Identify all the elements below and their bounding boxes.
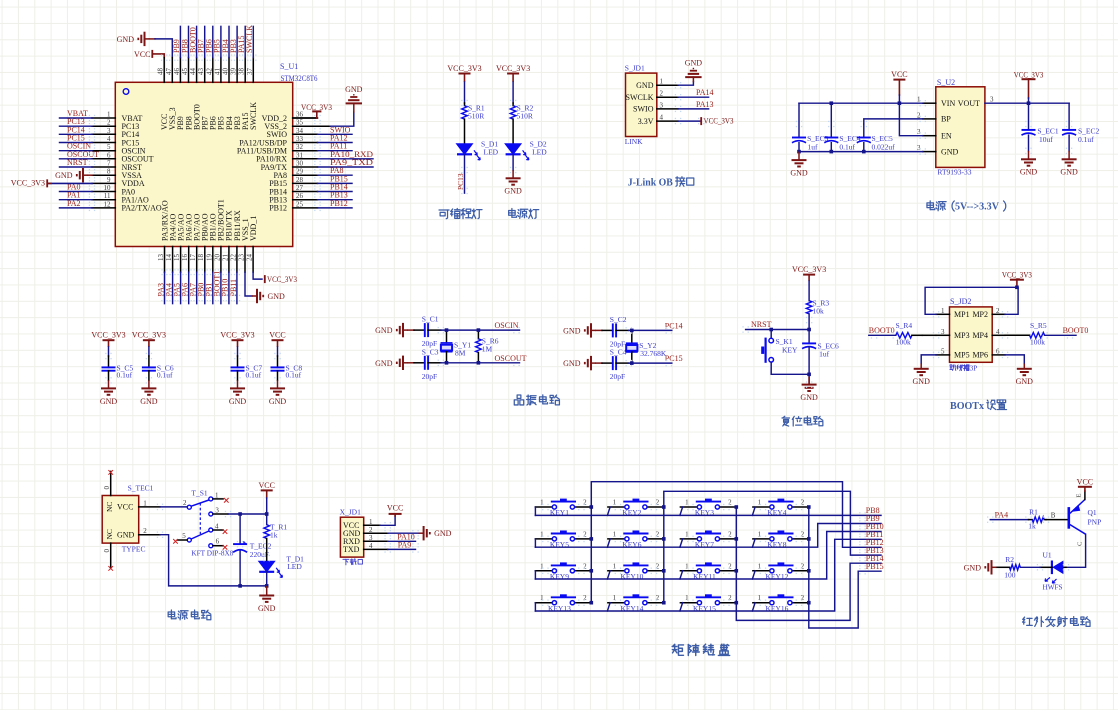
wire pin 23 bottom bbox=[244, 247, 246, 273]
power VCC at Q1 bbox=[1084, 491, 1086, 500]
wire switch pin1 nc bbox=[213, 498, 223, 500]
svg-text:47: 47 bbox=[165, 68, 173, 76]
svg-text:GND: GND bbox=[375, 359, 393, 368]
resistor S_R5 100k bbox=[992, 334, 1005, 336]
svg-text:GND: GND bbox=[1060, 168, 1078, 177]
pushbutton KEY16 bbox=[753, 602, 770, 604]
svg-text:20: 20 bbox=[213, 254, 221, 262]
svg-text:1: 1 bbox=[613, 530, 617, 538]
svg-text:GND: GND bbox=[1020, 168, 1038, 177]
svg-text:1: 1 bbox=[613, 499, 617, 507]
svg-text:27: 27 bbox=[296, 184, 304, 192]
svg-text:VCC: VCC bbox=[117, 503, 133, 512]
svg-text:39: 39 bbox=[230, 68, 238, 76]
svg-text:GND: GND bbox=[563, 326, 581, 335]
svg-text:MP5: MP5 bbox=[954, 351, 970, 360]
wire column 3 to PB14 bbox=[736, 507, 881, 620]
wire pin 24 bottom bbox=[252, 247, 254, 273]
svg-text:14: 14 bbox=[165, 254, 173, 262]
svg-text:MP1: MP1 bbox=[954, 310, 970, 319]
svg-text:18: 18 bbox=[197, 254, 205, 262]
svg-text:SWCLK: SWCLK bbox=[626, 93, 654, 102]
svg-text:4: 4 bbox=[215, 522, 219, 530]
svg-text:PB15: PB15 bbox=[866, 562, 884, 571]
wire JD1 pin4 VCC_3V3 bbox=[657, 120, 678, 122]
svg-text:PA4: PA4 bbox=[995, 510, 1009, 519]
svg-text:PC14: PC14 bbox=[665, 321, 683, 330]
svg-text:BOOT0: BOOT0 bbox=[1063, 326, 1089, 335]
svg-text:T_S1: T_S1 bbox=[191, 489, 208, 498]
power VCC_3V3 pin 24 bbox=[253, 272, 262, 279]
svg-text:100k: 100k bbox=[1030, 338, 1045, 347]
svg-text:26: 26 bbox=[296, 192, 304, 200]
connector X_JD1 body bbox=[340, 517, 363, 557]
caption power LED bbox=[509, 209, 517, 218]
wire JD1 pin2 PA14 bbox=[657, 96, 678, 98]
svg-text:GND: GND bbox=[1016, 377, 1034, 386]
wire pin 36 right bbox=[293, 117, 318, 119]
svg-text:0: 0 bbox=[103, 486, 111, 490]
svg-text:2: 2 bbox=[728, 562, 732, 570]
svg-text:S_C1: S_C1 bbox=[422, 315, 439, 324]
svg-text:U1: U1 bbox=[1043, 550, 1052, 559]
svg-text:2: 2 bbox=[656, 530, 660, 538]
resistor S_R3 10k bbox=[806, 301, 812, 314]
pushbutton KEY3 bbox=[680, 506, 697, 508]
svg-text:1: 1 bbox=[685, 594, 689, 602]
svg-text:0.1uf: 0.1uf bbox=[286, 371, 302, 380]
svg-text:VCC_3V3: VCC_3V3 bbox=[220, 331, 254, 340]
svg-text:2: 2 bbox=[656, 594, 660, 602]
wire row bus 2 bbox=[535, 524, 881, 548]
wire key hook bbox=[607, 571, 610, 579]
svg-text:GND: GND bbox=[229, 397, 247, 406]
resistor R2 100 bbox=[1040, 566, 1052, 568]
svg-text:6: 6 bbox=[216, 538, 220, 546]
power VCC_3V3 pin 9 VDDA bbox=[48, 182, 92, 184]
svg-text:32: 32 bbox=[296, 143, 304, 151]
svg-text:4: 4 bbox=[107, 135, 111, 143]
wire VIN rail bbox=[799, 102, 923, 104]
svg-text:VIN: VIN bbox=[941, 99, 955, 108]
svg-text:J-Link OB: J-Link OB bbox=[628, 176, 674, 188]
svg-text:LED: LED bbox=[287, 562, 302, 571]
caption power circuit bbox=[168, 610, 176, 619]
wire column 2 to PB13 bbox=[664, 491, 881, 602]
wire switch pin4 nc bbox=[213, 529, 223, 531]
svg-text:1: 1 bbox=[613, 562, 617, 570]
pushbutton KEY10 bbox=[608, 570, 625, 572]
svg-text:2: 2 bbox=[656, 499, 660, 507]
pushbutton KEY12 bbox=[753, 570, 770, 572]
svg-text:BP: BP bbox=[941, 115, 951, 124]
power VCC_3V3 at S_R3 bbox=[803, 275, 815, 282]
capacitor S_C1 20pF bbox=[408, 329, 414, 331]
wire pin 34 right bbox=[293, 133, 318, 135]
capacitor S_EC4 0.1uf bbox=[830, 103, 832, 137]
svg-text:S_R5: S_R5 bbox=[1030, 321, 1047, 330]
caption programmable LED bbox=[439, 210, 449, 219]
wire pin 38 top bbox=[244, 58, 246, 83]
pushbutton KEY9 bbox=[535, 570, 552, 572]
caption jumper 3P bbox=[950, 365, 956, 371]
wire pin 48 top bbox=[163, 58, 165, 83]
svg-text:34: 34 bbox=[296, 127, 304, 135]
wire pin 44 top bbox=[196, 58, 198, 83]
wire key hook bbox=[607, 603, 610, 611]
svg-text:S_JD1: S_JD1 bbox=[625, 63, 645, 72]
svg-text:17: 17 bbox=[189, 254, 197, 262]
resistor S_R2 510R bbox=[512, 103, 514, 106]
wire pin 30 right bbox=[293, 166, 318, 168]
wire pin 45 top bbox=[188, 58, 190, 83]
svg-text:1: 1 bbox=[540, 499, 544, 507]
wire pin 29 right bbox=[293, 174, 318, 176]
svg-text:10: 10 bbox=[104, 184, 112, 192]
power VCC_3V3 at S_C5 bbox=[103, 340, 115, 347]
wire XJD1 pin2 to GND bbox=[364, 532, 388, 534]
svg-text:28: 28 bbox=[296, 176, 304, 184]
wire PC15 bbox=[616, 362, 629, 364]
svg-text:PC15: PC15 bbox=[665, 354, 683, 363]
power VCC_3V3 at S_C7 bbox=[232, 340, 244, 347]
svg-text:Q1: Q1 bbox=[1088, 508, 1097, 517]
svg-text:24: 24 bbox=[246, 254, 254, 262]
wire pin 43 top bbox=[204, 58, 206, 83]
svg-text:VCC_3V3: VCC_3V3 bbox=[1014, 71, 1044, 80]
svg-text:R2: R2 bbox=[1005, 555, 1014, 564]
svg-text:GND: GND bbox=[55, 171, 73, 180]
svg-text:GND: GND bbox=[913, 377, 931, 386]
svg-text:VOUT: VOUT bbox=[958, 99, 980, 108]
caption matrix keyboard bbox=[672, 644, 683, 655]
ground at S_C3 bbox=[397, 356, 408, 370]
wire pin 9 left bbox=[92, 182, 115, 184]
wire row feed bbox=[534, 603, 536, 611]
svg-text:1M: 1M bbox=[482, 345, 493, 354]
svg-text:2: 2 bbox=[107, 119, 111, 127]
wire pin 21 bottom bbox=[228, 247, 230, 273]
ground at S_C2 bbox=[585, 323, 596, 337]
ground IR bbox=[997, 566, 1010, 568]
power VCC_3V3 pin 36 bbox=[293, 117, 317, 119]
wire key hook bbox=[680, 571, 683, 579]
svg-text:GND: GND bbox=[563, 359, 581, 368]
wire pin 13 bottom bbox=[164, 247, 166, 273]
wire VOUT to VCC_3V3 bbox=[985, 102, 1069, 104]
svg-text:GND: GND bbox=[941, 147, 959, 156]
wire pin 20 bottom bbox=[220, 247, 222, 273]
ground power circuit bbox=[259, 586, 274, 602]
svg-text:PNP: PNP bbox=[1088, 518, 1102, 527]
svg-text:C: C bbox=[1077, 542, 1084, 546]
svg-text:KFT DIP-8X8: KFT DIP-8X8 bbox=[191, 549, 233, 558]
wire XJD1 pin3 PA10 bbox=[364, 540, 388, 542]
wire JD2 pin6 to GND bbox=[992, 354, 1005, 356]
svg-text:0.1uf: 0.1uf bbox=[1078, 135, 1094, 144]
svg-text:15: 15 bbox=[173, 254, 181, 262]
wire EN to VIN rail bbox=[899, 103, 922, 136]
IC U1 STM32C8T6 body bbox=[115, 82, 292, 246]
capacitor S_EC2 0.1uf bbox=[1068, 103, 1070, 130]
svg-text:OSCOUT: OSCOUT bbox=[495, 354, 527, 363]
wire key hook bbox=[607, 539, 610, 547]
ground at S_C4 bbox=[585, 356, 596, 370]
wire BOOT0 left bbox=[869, 334, 896, 336]
ground at EC1 bbox=[1021, 151, 1036, 166]
svg-text:1: 1 bbox=[540, 562, 544, 570]
svg-text:GND: GND bbox=[345, 85, 363, 94]
capacitor S_EC5 0.022uf bbox=[863, 124, 865, 138]
wire row feed bbox=[534, 507, 536, 515]
svg-text:SWIO: SWIO bbox=[633, 105, 654, 114]
svg-text:1: 1 bbox=[685, 530, 689, 538]
svg-text:PB11: PB11 bbox=[229, 279, 238, 297]
wire pin 14 bottom bbox=[172, 247, 174, 273]
svg-text:3: 3 bbox=[107, 127, 111, 135]
transistor Q1 PNP bbox=[1068, 507, 1071, 529]
power VCC_3V3 for S_R2 bbox=[507, 74, 519, 83]
svg-text:5: 5 bbox=[182, 532, 186, 540]
svg-text:VCC: VCC bbox=[269, 331, 285, 340]
svg-text:VCC_3V3: VCC_3V3 bbox=[704, 117, 734, 126]
wire row bus 4 bbox=[535, 539, 881, 611]
wire OSCIN bbox=[428, 329, 441, 331]
svg-text:13: 13 bbox=[157, 254, 165, 262]
no-connect pin 0 top bbox=[110, 471, 112, 495]
wire JD2 pin5 to GND bbox=[936, 354, 950, 356]
LED T_D1 bbox=[259, 561, 275, 572]
svg-text:PA13: PA13 bbox=[696, 100, 714, 109]
wire BOOT0 right bbox=[1045, 334, 1076, 336]
svg-text:2: 2 bbox=[728, 499, 732, 507]
svg-text:PB12: PB12 bbox=[330, 199, 348, 208]
power VCC at T_R1 bbox=[261, 489, 273, 491]
svg-text:32.768K: 32.768K bbox=[640, 349, 667, 358]
wire key hook bbox=[680, 603, 683, 611]
svg-text:NC: NC bbox=[105, 502, 114, 512]
wire pin 32 right bbox=[293, 150, 318, 152]
wire pin 5 left bbox=[92, 150, 115, 152]
svg-text:0.1uf: 0.1uf bbox=[117, 371, 133, 380]
wire pin 26 right bbox=[293, 199, 318, 201]
pushbutton KEY2 bbox=[608, 506, 625, 508]
svg-text:31: 31 bbox=[296, 151, 304, 159]
svg-text:1: 1 bbox=[758, 562, 762, 570]
svg-text:LED: LED bbox=[484, 148, 499, 157]
svg-text:OSCIN: OSCIN bbox=[495, 321, 519, 330]
svg-text:TXD: TXD bbox=[343, 545, 360, 554]
power GND pin 47 VSS_3 bbox=[138, 32, 149, 46]
svg-text:S_R4: S_R4 bbox=[896, 321, 913, 330]
capacitor S_EC3 1uf bbox=[798, 103, 800, 137]
resistor T_R1 1k bbox=[264, 525, 270, 539]
svg-text:MP4: MP4 bbox=[972, 331, 988, 340]
wire column 1 to PB12 bbox=[591, 482, 881, 603]
pushbutton KEY13 bbox=[535, 602, 552, 604]
wire key hook bbox=[752, 507, 755, 515]
wire pin 33 right bbox=[293, 142, 318, 144]
svg-text:BOOTx: BOOTx bbox=[950, 400, 984, 412]
caption IR transmit circuit bbox=[1023, 617, 1033, 625]
svg-text:38: 38 bbox=[238, 68, 246, 76]
svg-text:1uf: 1uf bbox=[808, 143, 819, 152]
ground at EC3 bbox=[792, 152, 807, 167]
svg-text:SWCLK: SWCLK bbox=[249, 102, 258, 130]
svg-text:10k: 10k bbox=[813, 307, 825, 316]
power VCC at U2 bbox=[893, 79, 905, 81]
svg-text:1k: 1k bbox=[1028, 522, 1036, 531]
caption power 5V to 3.3V bbox=[927, 201, 935, 210]
svg-text:GND: GND bbox=[268, 292, 286, 301]
svg-text:E: E bbox=[1076, 494, 1083, 498]
svg-text:3: 3 bbox=[215, 506, 219, 514]
capacitor S_EC6 1uf bbox=[808, 330, 810, 344]
svg-text:5: 5 bbox=[107, 143, 111, 151]
ground at EC2 bbox=[1062, 151, 1077, 166]
wire key hook bbox=[680, 507, 683, 515]
ground at S_D2 bbox=[512, 155, 514, 170]
svg-text:2: 2 bbox=[801, 499, 805, 507]
svg-text:LINK: LINK bbox=[625, 137, 643, 146]
svg-text:VDD_1: VDD_1 bbox=[249, 216, 258, 241]
svg-text:45: 45 bbox=[181, 68, 189, 76]
snap dots MCU bottom bbox=[161, 269, 162, 270]
svg-text:1: 1 bbox=[685, 499, 689, 507]
svg-text:41: 41 bbox=[213, 68, 221, 76]
capacitor S_EC1 10uf bbox=[1028, 103, 1030, 130]
svg-text:3.3V: 3.3V bbox=[638, 117, 654, 126]
svg-text:B: B bbox=[1051, 511, 1056, 519]
svg-text:GND: GND bbox=[636, 81, 654, 90]
svg-text:EN: EN bbox=[941, 132, 952, 141]
wire pin 10 left bbox=[92, 191, 115, 193]
wire pin 40 top bbox=[228, 58, 230, 83]
wire pin 11 left bbox=[92, 199, 115, 201]
power VCC_3V3 at S_C6 bbox=[143, 340, 155, 347]
wire pin 35 right bbox=[293, 125, 318, 127]
svg-text:1: 1 bbox=[685, 562, 689, 570]
svg-text:2: 2 bbox=[728, 594, 732, 602]
svg-text:1: 1 bbox=[758, 499, 762, 507]
svg-text:5V-->3.3V: 5V-->3.3V bbox=[955, 202, 999, 213]
wire row bus 3 bbox=[535, 532, 881, 580]
wire pin 15 bottom bbox=[180, 247, 182, 273]
wire switch pin3 node bbox=[213, 513, 228, 515]
svg-text:23: 23 bbox=[238, 254, 246, 262]
svg-text:25: 25 bbox=[296, 200, 304, 208]
svg-text:VCC: VCC bbox=[891, 70, 907, 79]
svg-text:2: 2 bbox=[801, 562, 805, 570]
svg-text:VCC: VCC bbox=[387, 504, 403, 513]
jumper S_JD2 body bbox=[950, 307, 993, 362]
svg-text:42: 42 bbox=[205, 68, 213, 76]
svg-text:16: 16 bbox=[181, 254, 189, 262]
resistor S_R4 100k bbox=[936, 334, 950, 336]
svg-text:1: 1 bbox=[758, 594, 762, 602]
svg-text:PA9: PA9 bbox=[398, 540, 412, 549]
wire pin 42 top bbox=[212, 58, 214, 83]
svg-text:1: 1 bbox=[540, 530, 544, 538]
svg-text:33: 33 bbox=[296, 135, 304, 143]
regulator S_U2 RT9193-33 body bbox=[936, 87, 985, 168]
svg-text:VCC_3V3: VCC_3V3 bbox=[447, 64, 481, 73]
caption crystal circuit bbox=[514, 395, 523, 405]
svg-text:48: 48 bbox=[157, 68, 165, 76]
svg-text:S_C4: S_C4 bbox=[610, 348, 627, 357]
svg-text:1: 1 bbox=[107, 111, 111, 119]
svg-text:GND: GND bbox=[258, 604, 276, 613]
pushbutton KEY8 bbox=[753, 538, 770, 540]
capacitor S_C2 20pF bbox=[596, 329, 602, 331]
svg-text:GND: GND bbox=[800, 393, 818, 402]
caption download port bbox=[343, 559, 349, 565]
wire pin 1 left bbox=[92, 117, 115, 119]
svg-text:VCC_3V3: VCC_3V3 bbox=[91, 331, 125, 340]
wire row feed bbox=[534, 539, 536, 547]
svg-text:VCC_3V3: VCC_3V3 bbox=[1002, 270, 1032, 279]
svg-text:3P: 3P bbox=[970, 364, 978, 372]
svg-text:0.1uf: 0.1uf bbox=[246, 371, 262, 380]
svg-text:GND: GND bbox=[504, 187, 522, 196]
svg-text:VCC_3V3: VCC_3V3 bbox=[132, 331, 166, 340]
svg-text:S_U1: S_U1 bbox=[280, 62, 298, 71]
ground at S_C1 bbox=[397, 323, 408, 337]
wire switch pin5 nc bbox=[178, 539, 188, 541]
wire pin 8 left bbox=[92, 174, 115, 176]
wire switch pin6 nc bbox=[213, 545, 223, 547]
svg-text:2: 2 bbox=[801, 594, 805, 602]
pushbutton KEY4 bbox=[753, 506, 770, 508]
svg-text:NC: NC bbox=[105, 529, 114, 539]
svg-text:GND: GND bbox=[434, 529, 452, 538]
svg-text:1k: 1k bbox=[270, 530, 278, 539]
wire key hook bbox=[752, 603, 755, 611]
wire key hook bbox=[752, 571, 755, 579]
wire BP to EC5 bbox=[864, 119, 923, 124]
capacitor S_C3 20pF bbox=[408, 362, 414, 364]
svg-text:0.1uf: 0.1uf bbox=[157, 371, 173, 380]
svg-text:7: 7 bbox=[107, 160, 111, 168]
svg-text:1: 1 bbox=[758, 530, 762, 538]
pushbutton KEY1 bbox=[535, 506, 552, 508]
svg-text:NRST: NRST bbox=[67, 158, 88, 167]
svg-text:VCC: VCC bbox=[134, 50, 150, 59]
wire pin 37 top bbox=[252, 58, 254, 83]
wire row bus 1 bbox=[535, 514, 881, 516]
wire base node B bbox=[1046, 519, 1068, 521]
svg-text:VCC_3V3: VCC_3V3 bbox=[301, 103, 332, 112]
svg-text:GND: GND bbox=[790, 168, 808, 177]
wire pin 27 right bbox=[293, 191, 318, 193]
wire TEC1 VCC pin1 to switch bbox=[139, 506, 160, 508]
svg-text:1uf: 1uf bbox=[819, 350, 830, 359]
wire row feed bbox=[534, 571, 536, 579]
svg-text:S_TEC1: S_TEC1 bbox=[128, 483, 154, 492]
svg-text:GND: GND bbox=[375, 326, 393, 335]
caption kebianchengdeng bbox=[0, 0, 1, 1]
wire NRST node bbox=[746, 329, 810, 331]
svg-text:VCC_3V3: VCC_3V3 bbox=[496, 64, 530, 73]
pushbutton S_K1 KEY bbox=[770, 330, 772, 338]
wire pin 25 right bbox=[293, 207, 318, 209]
svg-text:HWFS: HWFS bbox=[1043, 582, 1063, 591]
svg-text:0.1uf: 0.1uf bbox=[839, 143, 855, 152]
svg-text:GND: GND bbox=[964, 563, 982, 572]
svg-text:20pF: 20pF bbox=[610, 372, 625, 381]
svg-text:VCC: VCC bbox=[1077, 477, 1093, 486]
wire pin 7 left bbox=[92, 166, 115, 168]
